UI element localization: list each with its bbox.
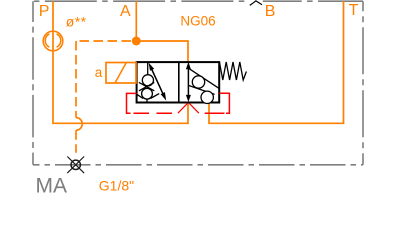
svg-text:P: P xyxy=(39,3,50,20)
right position: seat line 1 xyxy=(188,68,219,88)
enclosure border (sandwich plate outline, phantom line) xyxy=(33,0,363,2)
left position: flow arrow (double headed diagonal) xyxy=(152,70,163,94)
left position: port stub to ball 1 xyxy=(147,62,149,75)
left position: ball 2 xyxy=(142,88,153,99)
left position: bottom port stub xyxy=(146,99,148,102)
wire A branch to valve top port xyxy=(136,41,188,62)
svg-text:A: A xyxy=(120,3,131,20)
valve V1 body (2-position seat valve) xyxy=(137,62,220,102)
svg-text:ø**: ø** xyxy=(66,14,87,30)
plugged port B marker (caret on border) xyxy=(249,0,262,6)
wire P line: from plate top through orifice down, then right to valve bottom port xyxy=(53,1,188,123)
pilot line left diagonal to port xyxy=(178,103,188,113)
svg-text:B: B xyxy=(265,3,276,20)
test point MA (measuring coupling) xyxy=(71,160,80,169)
pilot line left (red) solid corner xyxy=(127,93,137,113)
spring (return spring, right side) xyxy=(219,62,246,80)
wire hop (line jump over P line) xyxy=(76,118,82,131)
left position: V seat under ball 2 xyxy=(137,94,159,99)
right position: ball 1 xyxy=(192,76,204,88)
wire T line: from plate top down, left to valve bottom port B side xyxy=(209,1,344,123)
pilot line left (red) dashed run xyxy=(134,112,178,114)
left position: crossed seat lines xyxy=(139,82,154,90)
svg-text:T: T xyxy=(349,2,359,19)
node A junction dot xyxy=(132,37,141,46)
svg-text:NG06: NG06 xyxy=(180,13,215,28)
svg-text:a: a xyxy=(95,65,103,80)
right position: vertical double headed arrow xyxy=(187,69,189,96)
solenoid a (coil box with slash) xyxy=(106,63,136,84)
orifice ø** (circle with restriction arcs) on P line xyxy=(43,31,63,51)
wire A line from plate top to junction xyxy=(135,1,137,41)
valve position divider xyxy=(178,62,180,103)
pilot line right diagonal from port xyxy=(189,103,199,113)
pilot line right (red) dashed run xyxy=(199,112,225,114)
svg-text:G1/8": G1/8" xyxy=(99,177,134,193)
svg-text:MA: MA xyxy=(36,175,68,198)
wire measuring line (dashed) from junction to MA xyxy=(76,40,131,42)
pilot line right (red) solid corner xyxy=(219,93,229,113)
right position: ball 2 xyxy=(201,91,213,103)
left position: ball 1 xyxy=(142,75,153,86)
right position: seat line 2 xyxy=(188,85,214,94)
